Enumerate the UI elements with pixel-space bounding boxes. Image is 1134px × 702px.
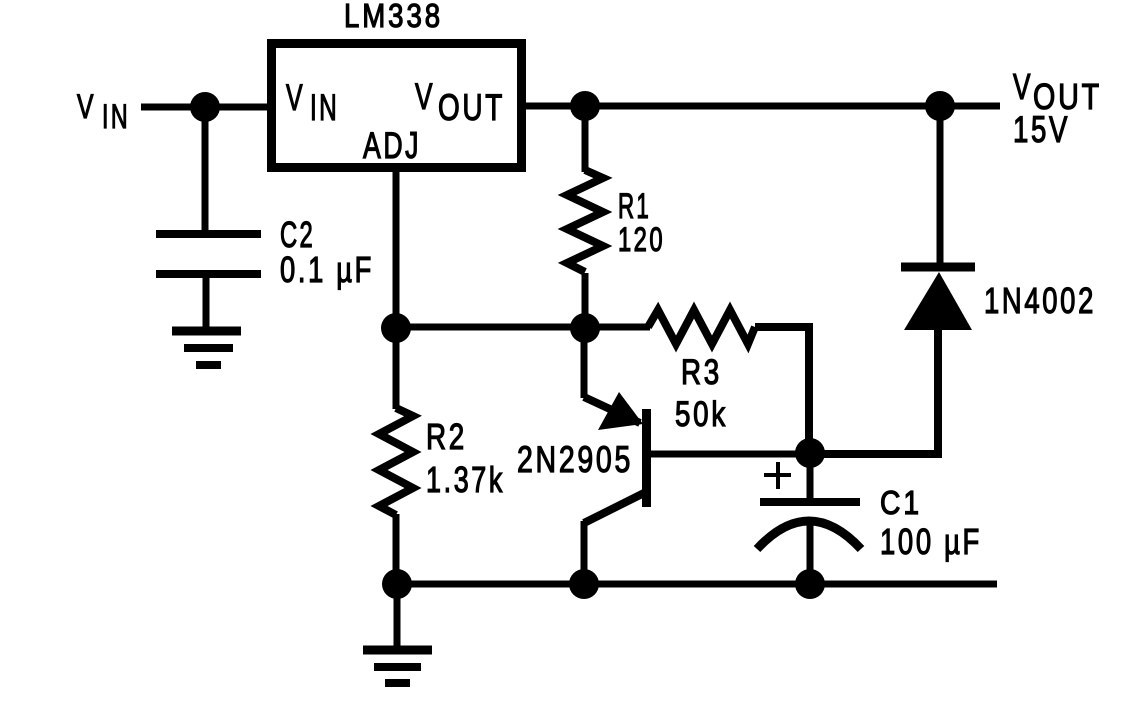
label ADJ pin	[363, 125, 421, 166]
wire C2 to ground	[203, 274, 210, 330]
label C2	[280, 214, 315, 255]
svg-text:ADJ: ADJ	[363, 125, 421, 166]
label 0.1 uF	[280, 249, 374, 290]
node VIN junction	[190, 92, 220, 122]
svg-text:OUT: OUT	[438, 87, 505, 128]
wire base lead to C1 node	[651, 451, 810, 458]
wire ADJ pin down	[393, 168, 400, 327]
label VIN input	[77, 88, 130, 136]
svg-text:V: V	[415, 76, 435, 117]
svg-text:15V: 15V	[1013, 109, 1070, 150]
C1 plus polarity mark	[764, 462, 791, 489]
label C1	[880, 484, 922, 521]
wire C1 node to diode	[810, 329, 938, 454]
resistor R3	[648, 310, 755, 344]
ground below C2	[172, 331, 241, 365]
svg-text:1N4002: 1N4002	[984, 280, 1096, 321]
svg-text:V: V	[1013, 66, 1033, 107]
label R1	[618, 187, 651, 226]
label 1N4002	[984, 280, 1096, 321]
node ADJ R2 junction	[381, 313, 411, 343]
node R2 bottom junction	[382, 569, 412, 599]
svg-text:LM338: LM338	[344, 0, 443, 34]
resistor R1	[567, 170, 603, 272]
label 50k	[675, 395, 728, 434]
capacitor C1	[757, 453, 861, 584]
label LM338	[344, 0, 443, 34]
capacitor C2 bottom plate	[156, 270, 261, 278]
wire R1 top lead	[582, 106, 589, 172]
svg-text:IN: IN	[310, 87, 339, 128]
svg-text:0.1 µF: 0.1 µF	[280, 249, 374, 290]
svg-text:C1: C1	[880, 484, 922, 521]
svg-text:1.37k: 1.37k	[426, 459, 505, 500]
node C1 bottom junction	[795, 569, 825, 599]
node transistor collector junction	[569, 569, 599, 599]
label 15V	[1013, 109, 1070, 150]
wire VOUT rail from regulator to output	[526, 103, 1000, 110]
wire R3 right lead to corner	[755, 327, 809, 453]
svg-text:V: V	[286, 77, 305, 118]
label R3	[681, 353, 722, 392]
node R1 top junction	[570, 91, 600, 121]
label VOUT output	[1013, 66, 1102, 117]
svg-text:R2: R2	[426, 416, 467, 457]
svg-text:R3: R3	[681, 353, 722, 392]
svg-text:V: V	[77, 88, 96, 126]
label VIN pin	[286, 77, 339, 128]
svg-text:2N2905: 2N2905	[517, 439, 633, 480]
node ADJ R1 junction	[570, 313, 600, 343]
node VOUT diode junction	[925, 91, 955, 121]
label 2N2905	[517, 439, 633, 480]
diode D1 1N4002	[901, 106, 975, 330]
wire R1 bottom lead	[582, 273, 589, 327]
label 1.37k	[426, 459, 505, 500]
svg-text:IN: IN	[102, 98, 130, 136]
wire VIN node down to C2	[202, 107, 209, 234]
svg-text:100 µF: 100 µF	[880, 521, 982, 562]
transistor Q1 2N2905	[584, 328, 651, 584]
regulator U1 LM338 box	[272, 44, 522, 168]
label VOUT pin	[415, 76, 505, 128]
svg-text:120: 120	[618, 221, 665, 259]
wire ADJ horizontal line	[396, 324, 650, 331]
svg-text:50k: 50k	[675, 395, 728, 434]
node C1 top junction	[795, 438, 825, 468]
label R2	[426, 416, 467, 457]
resistor R2	[379, 328, 413, 584]
wire bottom ground rail	[397, 581, 997, 588]
ground below R2	[363, 584, 432, 683]
label 100 uF	[880, 521, 982, 562]
label 120	[618, 221, 665, 259]
capacitor C2 top plate	[156, 230, 261, 238]
wire VIN input to regulator	[141, 104, 270, 111]
